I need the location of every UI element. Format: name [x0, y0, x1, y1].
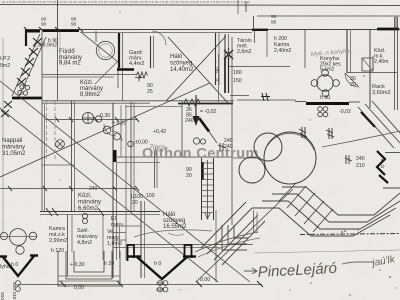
kitchen table: [317, 75, 333, 91]
wall vertical x114 lower: [112, 103, 114, 278]
svg-text:Nappali: Nappali: [2, 138, 22, 144]
door arcs corridor: [104, 124, 116, 136]
svg-text:4,8m2: 4,8m2: [77, 240, 92, 246]
short vertical top center: [237, 0, 239, 14]
cross tick x139: [135, 77, 143, 79]
horizontal y100 center: [237, 99, 296, 101]
room labels lower left: [0, 138, 187, 270]
tick pair center: [261, 93, 270, 101]
double vertical x57: [57, 31, 59, 100]
terrain curve big: [322, 131, 400, 147]
hatch crosses on diagonal wall: [17, 38, 42, 86]
dashed vertical x47: [46, 101, 48, 160]
drain circle: [56, 140, 65, 149]
top wall main line: [25, 29, 400, 31]
svg-text:25: 25: [147, 89, 153, 95]
left bold corner wall: [25, 30, 27, 47]
svg-text:16,55m2: 16,55m2: [163, 224, 187, 230]
svg-text:90: 90: [271, 20, 277, 26]
top wall bold segment D right: [377, 28, 399, 31]
svg-text:t.P.2: t.P.2: [0, 56, 10, 62]
svg-text:9,84 m2: 9,84 m2: [59, 61, 81, 67]
tree circle 2 big: [264, 132, 316, 184]
svg-text:2,6m2: 2,6m2: [237, 49, 252, 55]
hatch marks: [218, 127, 352, 164]
kitchen partition verticals: [253, 16, 255, 30]
level drop arrow: [195, 95, 197, 118]
chair left: [0, 232, 7, 239]
horizontal y95 short: [230, 95, 249, 97]
terrain curve left: [195, 232, 258, 252]
small circle x130: [128, 141, 134, 147]
ticks on top wall dim: [24, 27, 83, 32]
short vertical upper left: [57, 0, 59, 30]
spring squiggle gard: [136, 72, 148, 78]
second top line right: [257, 15, 400, 17]
bathtub circle: [96, 41, 114, 59]
svg-text:90: 90: [271, 14, 277, 20]
tree circle 1: [239, 157, 265, 183]
long horizontal y66: [229, 66, 290, 68]
bold bracket a: [128, 245, 135, 261]
gard top door arc: [152, 31, 166, 45]
svg-text:20: 20: [350, 82, 356, 88]
stair arrow: [207, 160, 209, 218]
staircase down ladder: [202, 158, 214, 220]
dimension line y119: [45, 119, 137, 121]
hatched diagonal wall left: [12, 34, 40, 96]
svg-text:márvány: márvány: [78, 200, 101, 206]
wall x370: [369, 30, 371, 108]
column circle pair: [82, 112, 93, 123]
svg-text:2,40m: 2,40m: [374, 59, 388, 65]
stair tread ticks: [279, 183, 333, 232]
svg-text:h: h: [215, 78, 220, 81]
svg-text:14,40m2: 14,40m2: [170, 67, 194, 73]
right upper approach diagonals: [358, 107, 394, 148]
dim bubbles on diagonal wall: [20, 85, 24, 89]
svg-text:5m2: 5m2: [0, 63, 10, 69]
svg-text:240: 240: [356, 156, 365, 162]
vertical x182: [181, 101, 183, 157]
svg-text:+ 0,20: + 0,20: [112, 121, 127, 127]
svg-text:márvány: márvány: [2, 145, 25, 151]
dashed level line right: [300, 234, 400, 235]
svg-text:5,1m2: 5,1m2: [320, 67, 335, 73]
svg-text:210: 210: [356, 163, 365, 169]
top wall bold segment C: [252, 29, 268, 31]
svg-text:h 90: h 90: [320, 95, 330, 101]
ticks on wall y212: [46, 208, 104, 216]
svg-text:150: 150: [233, 78, 242, 84]
svg-text:180: 180: [233, 70, 242, 76]
band tail diagonals: [207, 208, 252, 254]
svg-text:100: 100: [146, 193, 155, 199]
svg-text:= -0,02: = -0,02: [200, 109, 216, 115]
dim circles under V1: [16, 281, 21, 286]
svg-text:+0,42: +0,42: [153, 129, 166, 135]
svg-text:Közl.: Közl.: [78, 193, 92, 199]
right edge horizontals: [385, 152, 400, 154]
svg-text:0,00: 0,00: [200, 277, 210, 283]
kitchen door arcs: [345, 73, 359, 87]
short horizontal y165 left: [42, 164, 75, 166]
top wall bold segment A: [26, 30, 40, 33]
stair band zigzag 2: [272, 194, 400, 222]
svg-text:h 0: h 0: [154, 261, 161, 267]
bold horizontal wall left: [12, 97, 42, 100]
left outer faint vertical: [2, 38, 4, 235]
hook at right end: [395, 16, 397, 28]
bottom dimension line: [18, 284, 262, 286]
dim text 240 210 right: [356, 156, 385, 170]
svg-text:20: 20: [186, 173, 192, 179]
nested corner L a: [222, 225, 247, 250]
svg-text:márv.: márv.: [111, 222, 124, 228]
bold V2 center: [128, 257, 196, 280]
ledge y245 double: [127, 244, 253, 246]
corridor wall semi-bold right part: [178, 103, 233, 105]
handwritten 7m c gray: [168, 233, 184, 235]
svg-text:8,96m2: 8,96m2: [80, 92, 101, 98]
horizontal y163 short: [117, 162, 160, 164]
stair band zigzag 4: [252, 208, 390, 236]
bold piece x114: [113, 150, 116, 162]
svg-text:+ 0,30: + 0,30: [70, 262, 85, 268]
dim circles under V2: [158, 281, 163, 286]
svg-text:31,05m2: 31,05m2: [2, 151, 26, 157]
top wall lower line: [80, 32, 252, 34]
gard right wall double: [215, 33, 217, 85]
vertical x155: [154, 150, 156, 188]
svg-text:2,99m2: 2,99m2: [49, 238, 67, 244]
svg-text:240: 240: [89, 186, 98, 192]
bold diag right low: [379, 175, 388, 183]
top wall bold segment B: [43, 30, 79, 32]
svg-text:±0,00: ±0,00: [135, 140, 148, 146]
svg-text:90: 90: [215, 67, 221, 73]
verticals lower rooms: [67, 214, 69, 276]
exterior stair nested U: [58, 251, 120, 286]
table cross line: [0, 236, 37, 238]
svg-text:-0,02: -0,02: [339, 109, 351, 115]
svg-text:h 120: h 120: [51, 248, 64, 254]
vertical pair x71: [71, 101, 73, 212]
svg-text:Él.: Él.: [111, 215, 117, 222]
vertical x233: [231, 37, 233, 225]
svg-text:h: h: [381, 158, 384, 164]
vertical x253 pair: [253, 210, 255, 233]
top border line: [0, 5, 400, 6]
spring squiggle door: [184, 99, 200, 106]
long construction diagonal A: [0, 83, 210, 177]
svg-text:Háló: Háló: [170, 54, 183, 60]
stair band zigzag 3: [262, 201, 396, 229]
nested corner L b: [228, 225, 247, 244]
long construction diagonal B2: [0, 108, 218, 282]
tree circle 3: [254, 133, 282, 161]
tick on top border: [245, 2, 247, 13]
stair band zigzag 1: [282, 187, 400, 215]
svg-text:h 20: h 20: [104, 261, 114, 267]
horizontal y157: [117, 156, 233, 158]
corridor wall line y100: [42, 100, 234, 102]
bathroom diagonal: [82, 33, 118, 62]
vertical x216: [215, 210, 217, 282]
svg-text:7incs: 7incs: [149, 145, 166, 152]
nested corner L c: [234, 225, 248, 238]
svg-text:20: 20: [132, 200, 138, 206]
halo room X diagonal 2: [166, 36, 226, 101]
micro text row at very top: [2, 1, 250, 3]
gep circles small: [82, 213, 87, 218]
chair bottom: [16, 246, 24, 254]
bold double wall x226: [224, 34, 226, 58]
svg-text:D: D: [381, 164, 385, 170]
svg-text:2,8 8,9m2: 2,8 8,9m2: [34, 43, 57, 49]
bold diag stair top: [361, 112, 375, 127]
bathroom left wall vertical: [41, 31, 43, 212]
small rect WC: [362, 58, 373, 71]
gard bottom bold wall: [117, 68, 134, 70]
bold wall right y103: [306, 102, 349, 105]
construction diagonal C: [196, 189, 293, 282]
svg-text:240: 240: [185, 118, 194, 124]
wall x347 double: [346, 30, 348, 73]
chair right: [29, 232, 37, 240]
bold V1 left: [0, 256, 38, 277]
levels texts center: [89, 113, 192, 206]
dash after handwriting: [342, 262, 374, 264]
ve room fixtures: [113, 232, 126, 234]
faint line under handwriting: [254, 250, 400, 253]
el room top line: [113, 225, 141, 227]
svg-text:3,60m2: 3,60m2: [372, 90, 391, 96]
halo room X diagonal 1: [168, 37, 228, 103]
door circles pair center: [193, 138, 199, 144]
shallow terrain arc above V2: [134, 230, 212, 237]
horizontal y72 right: [347, 72, 397, 74]
wall knot tárolo: [224, 48, 233, 60]
bold diagonal wall center: [199, 118, 209, 132]
kitchen dim bubbles: [318, 107, 323, 112]
svg-text:4,4m2: 4,4m2: [129, 61, 145, 67]
fürdő right wall double: [118, 33, 120, 68]
thin vertical x218: [218, 54, 220, 102]
wall y212 double: [40, 211, 160, 213]
dimension line y188: [0, 188, 137, 190]
svg-text:szönyeg: szönyeg: [170, 61, 192, 67]
table big circle: [10, 229, 27, 246]
long construction diagonal B: [0, 81, 250, 282]
bold bracket b: [185, 245, 192, 260]
gard bottom thin wall: [42, 74, 136, 76]
right outer wall double: [394, 17, 396, 110]
svg-text:2,40m2: 2,40m2: [274, 48, 291, 54]
bathtub nook vertical: [95, 31, 97, 42]
handwritten PINCELEJARO: [244, 268, 257, 274]
hatch below left wall: [1, 101, 12, 117]
svg-text:90: 90: [71, 22, 77, 28]
svg-text:90: 90: [41, 22, 47, 28]
right bold zigzag: [377, 151, 385, 175]
svg-text:300: 300: [0, 292, 5, 300]
vertical pair x131: [130, 102, 132, 212]
svg-text:0,30: 0,30: [100, 113, 110, 119]
gard left wall double: [150, 36, 152, 68]
